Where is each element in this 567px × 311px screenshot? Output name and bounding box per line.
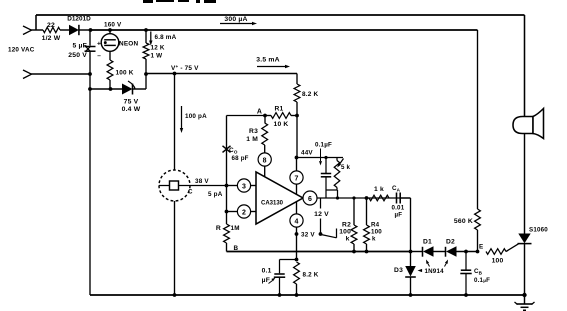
svg-text:38 V: 38 V xyxy=(195,178,209,185)
node A xyxy=(263,114,267,118)
wire pins junction vertical xyxy=(226,186,228,212)
svg-text:1 k: 1 k xyxy=(374,186,384,193)
wire input to resistor 22ohm xyxy=(31,29,44,31)
input terminal arrow 120VAC hot xyxy=(23,26,32,30)
resistor R3 1M xyxy=(264,116,266,124)
potentiometer 5k xyxy=(336,158,338,161)
svg-text:300 µA: 300 µA xyxy=(224,16,247,23)
wire resistor to diode D1201D xyxy=(60,29,69,31)
wire top rail from input junction to top-right corner xyxy=(36,14,525,16)
pin 3 inverting input xyxy=(227,185,238,187)
node 44V xyxy=(295,156,299,160)
alarm horn speaker xyxy=(513,117,533,134)
svg-text:E: E xyxy=(479,244,483,251)
svg-text:0.1: 0.1 xyxy=(262,268,272,275)
svg-text:8: 8 xyxy=(263,157,267,164)
svg-text:R1: R1 xyxy=(275,106,284,113)
diode D1 1N914 xyxy=(411,251,423,253)
zener diode 75V 0.4W xyxy=(90,88,122,90)
svg-text:S1060: S1060 xyxy=(529,227,548,234)
wire left vertical down to bottom rail xyxy=(89,74,91,295)
svg-text:k: k xyxy=(346,236,350,243)
svg-text:D2: D2 xyxy=(446,239,455,246)
svg-text:8.2 K: 8.2 K xyxy=(303,272,319,279)
svg-text:7: 7 xyxy=(294,175,298,182)
resistor 100K xyxy=(107,60,113,80)
pin 4 V- supply xyxy=(296,201,298,214)
pin 2 non-inverting input xyxy=(227,211,238,213)
svg-text:k: k xyxy=(372,236,376,243)
resistor R2 100k xyxy=(352,196,355,199)
svg-text:–: – xyxy=(97,53,101,60)
neon lamp xyxy=(109,30,111,34)
node 160V junction dot xyxy=(89,28,93,32)
wire 32V stub to 12V stub xyxy=(321,235,337,238)
svg-text:10 K: 10 K xyxy=(274,121,289,128)
node E xyxy=(476,250,480,254)
svg-text:6.8 mA: 6.8 mA xyxy=(155,34,177,41)
resistor R 1M bias xyxy=(226,212,228,225)
pin 7 V+ supply xyxy=(296,158,298,172)
svg-text:0.1µF: 0.1µF xyxy=(474,277,490,284)
ground symbol xyxy=(524,295,526,304)
wire bottom rail xyxy=(90,294,525,296)
resistor 100 ohm gate xyxy=(486,249,506,255)
partial cut-off title text LINE at top xyxy=(143,0,153,3)
svg-text:100: 100 xyxy=(339,229,351,236)
svg-text:5 µF: 5 µF xyxy=(72,43,87,50)
svg-text:12 V: 12 V xyxy=(314,211,329,218)
svg-text:1M: 1M xyxy=(231,225,240,232)
wire 160V rail to right corner xyxy=(91,29,478,31)
wire node A to C0 branch xyxy=(227,115,266,117)
svg-text:100 pA: 100 pA xyxy=(185,113,207,120)
svg-text:1 M: 1 M xyxy=(246,136,258,143)
capacitor C0 68pF xyxy=(223,146,231,153)
svg-text:3: 3 xyxy=(242,183,246,190)
svg-text:32 V: 32 V xyxy=(301,232,315,239)
wire 160V rail drop on right toward 560K xyxy=(477,30,479,209)
capacitor 5uF 250V electrolytic xyxy=(89,30,91,46)
resistor 8.2K upper xyxy=(294,84,300,102)
diode D1201D xyxy=(69,25,79,35)
wire diode to 160V node xyxy=(79,29,91,31)
svg-text:0.4 W: 0.4 W xyxy=(122,106,141,113)
svg-text:CA3130: CA3130 xyxy=(261,201,284,207)
svg-text:250 V: 250 V xyxy=(68,52,87,59)
svg-text:+: + xyxy=(97,41,101,48)
wire CA to D1 anode corner xyxy=(400,197,410,199)
svg-text:4: 4 xyxy=(294,218,298,225)
resistor 560K xyxy=(475,209,481,230)
svg-text:D1: D1 xyxy=(423,239,432,246)
wire right drop from top rail to alarm speaker xyxy=(524,15,526,118)
svg-text:R: R xyxy=(216,225,221,232)
node 32V xyxy=(295,232,299,236)
svg-text:560 K: 560 K xyxy=(454,218,473,225)
svg-text:6: 6 xyxy=(308,196,312,203)
label 6.8 mA with current arrow xyxy=(150,32,152,42)
svg-text:D1201D: D1201D xyxy=(67,16,91,23)
svg-text:1 W: 1 W xyxy=(151,53,163,60)
svg-text:1/2 W: 1/2 W xyxy=(42,35,61,42)
pin 8 of op-amp xyxy=(258,153,271,166)
svg-text:100 K: 100 K xyxy=(116,70,134,77)
label 100 pA with current arrow xyxy=(181,106,183,128)
node junction dot zener wire xyxy=(88,87,92,91)
op-amp U1 CA3130 triangle xyxy=(256,172,303,224)
svg-text:22: 22 xyxy=(47,22,55,29)
svg-text:12 K: 12 K xyxy=(151,45,165,52)
resistor 8.2K lower xyxy=(294,262,300,284)
capacitor 0.1uF feedback xyxy=(325,158,327,174)
capacitor 0.1uF bypass xyxy=(280,259,297,261)
diode D2 1N914 xyxy=(434,251,446,253)
svg-text:C: C xyxy=(188,189,193,196)
svg-text:1N914: 1N914 xyxy=(425,268,445,275)
svg-text:0.01: 0.01 xyxy=(392,205,405,212)
svg-text:100: 100 xyxy=(371,229,382,236)
svg-text:5 pA: 5 pA xyxy=(208,191,223,198)
svg-text:R2: R2 xyxy=(342,222,351,229)
wire V+ 75V rail xyxy=(146,73,297,75)
svg-text:100: 100 xyxy=(492,258,504,265)
resistor R1 10K xyxy=(271,113,291,119)
svg-text:120 VAC: 120 VAC xyxy=(8,47,35,54)
pin 6 output xyxy=(303,191,317,205)
node pin3 junction xyxy=(225,184,229,188)
svg-text:NEON: NEON xyxy=(119,40,138,47)
resistor 1k output xyxy=(369,195,389,201)
svg-text:µF: µF xyxy=(395,212,403,219)
wire vertical from input junction down to 120VAC line xyxy=(35,15,37,30)
svg-text:V+ - 75 V: V+ - 75 V xyxy=(171,64,199,72)
SCR S1060 xyxy=(524,133,526,234)
svg-text:5 k: 5 k xyxy=(341,164,351,171)
input terminal arrow 120VAC neutral xyxy=(23,70,32,74)
wire gate to SCR xyxy=(506,244,519,252)
capacitor CA 0.01uF coupling xyxy=(396,193,398,204)
svg-text:8.2 K: 8.2 K xyxy=(302,91,318,98)
resistor 22 ohm 1/2W xyxy=(43,27,60,32)
diode D3 1N914 clamp xyxy=(410,252,412,267)
wire pot bottom loop to output xyxy=(326,189,338,191)
svg-text:0.1µF: 0.1µF xyxy=(315,142,332,149)
svg-text:3.5 mA: 3.5 mA xyxy=(256,57,280,64)
capacitor CB 0.1uF xyxy=(465,252,467,270)
label 12V output node stub xyxy=(320,198,322,209)
svg-text:160 V: 160 V xyxy=(104,22,122,29)
svg-text:A: A xyxy=(257,109,262,116)
svg-text:75 V: 75 V xyxy=(124,99,139,106)
wire 44V node to pot xyxy=(297,157,344,159)
svg-text:D3: D3 xyxy=(394,267,403,274)
resistor 12K 1W xyxy=(144,28,148,32)
svg-text:R4: R4 xyxy=(371,222,380,229)
wire V+ corner down to 8.2K xyxy=(296,74,298,85)
svg-text:2: 2 xyxy=(242,209,246,216)
ionization chamber C dashed circle xyxy=(174,74,176,171)
svg-text:44V: 44V xyxy=(301,150,313,157)
node junction dot lower input xyxy=(88,72,92,76)
node junction below B rail xyxy=(295,258,299,262)
svg-text:R3: R3 xyxy=(249,128,258,135)
resistor R4 100k xyxy=(365,196,369,200)
svg-text:68 pF: 68 pF xyxy=(232,155,249,162)
